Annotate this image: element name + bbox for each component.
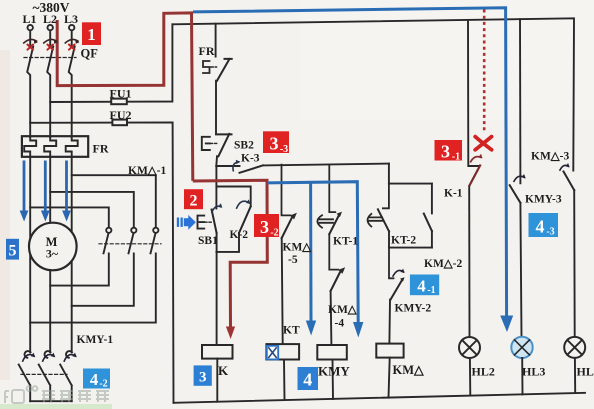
wire KMY-2 to KM delta coil bbox=[388, 300, 391, 344]
svg-text:L1: L1 bbox=[22, 12, 36, 26]
KMY-1 linkage dashed bbox=[21, 373, 67, 375]
blue annotation top rail to HL3 bbox=[193, 8, 507, 323]
contact KM delta-1 pole 1 blade bbox=[104, 233, 109, 253]
svg-text:FU2: FU2 bbox=[110, 108, 132, 122]
svg-text:KT-1: KT-1 bbox=[333, 236, 358, 248]
svg-text:FU1: FU1 bbox=[110, 87, 132, 101]
red annotation path step1: L2 through QF and FU1 to top rail bbox=[57, 13, 267, 327]
contact K-1 blade (dark red) bbox=[469, 165, 480, 187]
svg-text:3~: 3~ bbox=[46, 247, 59, 261]
KT-2 delay flag bbox=[368, 214, 382, 227]
svg-text:4: 4 bbox=[536, 217, 545, 237]
wire KM delta-1 feed from L2 bbox=[50, 192, 134, 228]
wire motor lead 1 bbox=[29, 157, 31, 352]
contact KMY-1 pole2 blade bbox=[39, 351, 51, 401]
wire K-1 to lamp HL2 bbox=[468, 186, 470, 337]
contact SB2 blade bbox=[216, 134, 232, 157]
svg-text:K-1: K-1 bbox=[444, 188, 463, 200]
wire SB2 to node bbox=[215, 156, 218, 166]
motor M circle bbox=[29, 223, 77, 271]
coil K bbox=[202, 345, 233, 359]
coil KM delta bbox=[376, 344, 403, 358]
contact KMY-1 pole3 blade bbox=[60, 351, 72, 401]
wire KM delta-1 pole1 bottom to L2 lead bbox=[50, 253, 109, 285]
marker box 3-1 bbox=[435, 140, 463, 161]
curved arrow KMY-2 bbox=[393, 270, 404, 276]
KMY-2 blade arrowhead bbox=[400, 277, 405, 281]
svg-text:3: 3 bbox=[260, 217, 269, 237]
svg-text:KM△-3: KM△-3 bbox=[531, 151, 569, 163]
svg-text:L2: L2 bbox=[43, 12, 57, 26]
red annotation mid horizontal to K-2 column bbox=[193, 180, 267, 327]
svg-text:K-3: K-3 bbox=[241, 153, 260, 165]
contact KM delta-1 pole 2 blade bbox=[129, 233, 134, 253]
svg-text:K: K bbox=[218, 363, 229, 378]
svg-text:-1: -1 bbox=[452, 152, 460, 163]
curved arrow SB1 bbox=[212, 206, 222, 213]
contact KM delta-1 pole 3 terminal bbox=[153, 228, 158, 233]
QF pole curved arrows bbox=[23, 39, 78, 43]
blue arrowhead at KMY coil bbox=[306, 321, 316, 336]
blue annotation drop to KMY coil bbox=[309, 182, 312, 321]
wire KT-2 stub bbox=[383, 184, 389, 209]
wire KT-1 to KM delta-4 bbox=[329, 234, 338, 270]
svg-text:KT-2: KT-2 bbox=[391, 235, 416, 247]
wire KMY-3 branch top bbox=[519, 19, 521, 183]
green strip bottom left bbox=[0, 404, 112, 409]
contact KM delta-3 blade bbox=[564, 172, 575, 191]
wire motor lead 2 bbox=[49, 157, 51, 352]
red dashed trip line bbox=[483, 10, 486, 132]
FR heater element 3 bbox=[66, 137, 78, 157]
wire L2 phase drop bbox=[47, 31, 53, 138]
marker box 5 bbox=[6, 239, 19, 260]
marker box 4-1 bbox=[410, 275, 439, 296]
button SB2 stop plunger bbox=[202, 137, 210, 150]
marker box 4 bbox=[298, 367, 319, 390]
KM delta-5 blade arrowhead bbox=[290, 213, 297, 220]
contact FR normally-closed bbox=[217, 59, 232, 81]
svg-text:4: 4 bbox=[90, 370, 99, 389]
svg-text:KM△-2: KM△-2 bbox=[424, 258, 462, 270]
wire FU1 line from L2 to control riser bbox=[50, 24, 172, 102]
contact KM delta-1 pole 1 terminal bbox=[106, 228, 111, 233]
contact SB1 blade bbox=[212, 210, 217, 234]
svg-text:-3: -3 bbox=[280, 144, 288, 155]
wire KM delta-5 to KT coil bbox=[282, 238, 283, 344]
svg-text:5: 5 bbox=[9, 243, 17, 260]
svg-text:K-2: K-2 bbox=[230, 229, 249, 241]
svg-text:4: 4 bbox=[417, 277, 426, 296]
blue arrowhead at HL3 bbox=[500, 316, 513, 333]
marker box 3-3 bbox=[263, 131, 289, 153]
curved arrow K-3 bbox=[233, 162, 240, 172]
svg-text:KMY-3: KMY-3 bbox=[525, 194, 562, 206]
curved arrow K-1 (dark red) bbox=[470, 157, 481, 163]
svg-text:QF: QF bbox=[81, 47, 99, 61]
svg-text:KT: KT bbox=[283, 325, 300, 337]
button SB1 start plunger bbox=[198, 216, 205, 229]
watermark bbox=[5, 386, 109, 403]
wire HL3 to bottom rail bbox=[521, 358, 523, 394]
contact KM delta-2 blade bbox=[424, 214, 432, 231]
wire KM delta-3 to lamp HL1 bbox=[573, 190, 576, 337]
FR heater element 2 bbox=[44, 137, 56, 157]
wire FR to SB2 bbox=[215, 81, 217, 134]
curved arrow KM delta-3 bbox=[560, 165, 569, 170]
wire HL1 to bottom rail bbox=[574, 358, 576, 393]
svg-text:HL1: HL1 bbox=[577, 365, 594, 379]
KM delta-1 linkage dashed bbox=[99, 243, 161, 245]
terminal L1 bbox=[28, 25, 33, 30]
wire KM delta-1 pole2 bottom to L3 lead bbox=[72, 253, 134, 305]
curved arrows KMY-1 poles bbox=[22, 355, 76, 362]
QF pole red x marks bbox=[27, 45, 74, 50]
wire L3 phase drop bbox=[69, 31, 75, 138]
terminal L3 bbox=[69, 25, 74, 30]
SB1 plunger dashes bbox=[205, 221, 213, 223]
svg-text:-2: -2 bbox=[270, 228, 278, 239]
contact KMY-1 pole1 blade bbox=[19, 351, 31, 401]
wire L1 phase drop bbox=[27, 31, 33, 138]
curved arrow K-2 bbox=[236, 201, 250, 209]
curved arrow KMY-3 bbox=[514, 176, 525, 182]
KT-1 blade arrowhead bbox=[337, 212, 343, 217]
marker box 2 bbox=[184, 189, 203, 209]
contact KT-2 blade bbox=[378, 209, 389, 231]
svg-text:FR: FR bbox=[93, 142, 109, 156]
svg-text:2: 2 bbox=[190, 193, 198, 210]
wire motor lead 3 bbox=[71, 157, 73, 352]
svg-text:-5: -5 bbox=[288, 254, 298, 266]
marker box 4-2 bbox=[83, 369, 110, 389]
svg-text:L3: L3 bbox=[64, 12, 78, 26]
wire KM delta-2 stub bbox=[431, 184, 433, 214]
breaker QF linkage dashed bbox=[24, 57, 76, 59]
wire K coil to bottom rail bbox=[216, 359, 218, 402]
KM delta-4 blade arrowhead bbox=[338, 267, 345, 274]
marker box 3-2 bbox=[254, 214, 279, 237]
contact KM delta-4 blade bbox=[331, 271, 341, 291]
wire K-2 bottom join bbox=[216, 233, 239, 252]
coil KMY bbox=[317, 345, 347, 360]
lamp HL3 bbox=[511, 337, 532, 358]
wire SB1 branch upper bbox=[215, 166, 217, 209]
wire SB1 to K coil bbox=[216, 233, 218, 345]
svg-text:KMY: KMY bbox=[318, 364, 350, 379]
wire KM delta-4 to KMY coil bbox=[330, 291, 333, 345]
marker box 3 bbox=[194, 365, 212, 385]
contact KMY-3 blade bbox=[510, 185, 521, 203]
red X mark at K-1 bbox=[475, 137, 491, 150]
wire K-1 branch top bbox=[468, 20, 478, 166]
svg-text:KM△: KM△ bbox=[393, 363, 426, 377]
svg-text:1: 1 bbox=[87, 25, 96, 44]
lamp HL2 bbox=[459, 337, 480, 358]
blue pointer icon at SB1 bbox=[177, 215, 196, 230]
star point bar bbox=[30, 400, 71, 402]
blue arrowhead right of KMY coil bbox=[353, 322, 363, 338]
contact K-2 blade bbox=[239, 207, 251, 234]
bottom control rail bbox=[174, 393, 586, 403]
blue motor current arrows bbox=[24, 161, 67, 212]
contact KMY-2 blade bbox=[391, 280, 403, 300]
wire KT-2 branch drop bbox=[388, 164, 390, 184]
fuse FU1 bbox=[111, 99, 127, 105]
FR heater element 1 bbox=[24, 137, 36, 157]
svg-text:4: 4 bbox=[303, 370, 312, 390]
wire KMY-3 to lamp HL3 bbox=[520, 203, 521, 337]
coil KT bbox=[266, 344, 299, 359]
wire KM delta-1 pole3 bottom to L1 lead bbox=[30, 253, 156, 322]
wire parallel split bar bbox=[389, 183, 432, 185]
wire KT-1 branch top bbox=[329, 164, 335, 212]
blue annotation mid rail bbox=[267, 182, 358, 323]
thermal relay FR box bbox=[22, 136, 88, 157]
contact KT-1 blade bbox=[329, 216, 339, 235]
svg-text:KMY-2: KMY-2 bbox=[395, 303, 432, 315]
svg-text:3: 3 bbox=[441, 142, 450, 162]
marker box 4-3 bbox=[529, 213, 559, 237]
fuse FU2 bbox=[112, 120, 127, 126]
terminal L2 bbox=[48, 25, 53, 30]
wire KM delta-1 feed from L1 bbox=[30, 207, 109, 227]
wire to KMY-2 bbox=[389, 248, 394, 279]
svg-text:3: 3 bbox=[199, 370, 207, 386]
marker box 1 bbox=[82, 22, 101, 45]
svg-text:-1: -1 bbox=[427, 285, 435, 296]
KT-1 delay flag bbox=[317, 215, 333, 227]
FR trip dashes bbox=[211, 66, 217, 68]
contact KM delta-1 pole 2 terminal bbox=[131, 228, 136, 233]
wire K-2 branch top bbox=[216, 187, 250, 207]
wire KM delta-5 branch top bbox=[282, 165, 291, 216]
red annotation arrowhead at coil K bbox=[226, 327, 235, 340]
svg-text:KM△: KM△ bbox=[283, 242, 313, 254]
svg-text:KMY-1: KMY-1 bbox=[77, 334, 114, 346]
svg-text:HL2: HL2 bbox=[472, 365, 495, 379]
marker box X on KT coil bbox=[267, 346, 278, 360]
svg-text:KM△-1: KM△-1 bbox=[128, 165, 166, 177]
wire KM delta coil to bottom rail bbox=[389, 358, 390, 398]
svg-text:3: 3 bbox=[270, 134, 279, 154]
wire KM delta-1 feed from L3 bbox=[72, 175, 156, 227]
FR trip element bbox=[203, 61, 210, 73]
contact KM delta-1 pole 3 blade bbox=[151, 233, 156, 253]
lamp HL1 bbox=[564, 337, 585, 358]
wire KM delta-2 lower stub bbox=[431, 231, 433, 248]
svg-text:-4: -4 bbox=[335, 318, 345, 330]
node rail bbox=[216, 164, 389, 166]
svg-text:HL3: HL3 bbox=[522, 365, 545, 379]
wire HL2 to bottom rail bbox=[469, 358, 471, 396]
svg-text:SB2: SB2 bbox=[234, 140, 254, 152]
svg-text:KM△: KM△ bbox=[328, 304, 358, 316]
svg-text:FR: FR bbox=[199, 44, 215, 58]
wire KMY coil to bottom rail bbox=[332, 360, 335, 399]
contact KM delta-5 blade bbox=[282, 217, 293, 238]
SB2 plunger dashes bbox=[210, 142, 217, 144]
wire FR branch top bbox=[215, 24, 217, 57]
wire FU2 line from L1 down-riser to bottom rail bbox=[30, 122, 173, 402]
wire parallel rejoin bar bbox=[389, 231, 432, 247]
top control rail bbox=[172, 18, 574, 170]
contact K-3 blade bbox=[240, 165, 264, 172]
svg-text:-3: -3 bbox=[546, 227, 554, 238]
wire KT coil to bottom rail bbox=[283, 360, 286, 401]
svg-text:-2: -2 bbox=[99, 379, 107, 390]
svg-text:SB1: SB1 bbox=[198, 235, 218, 247]
